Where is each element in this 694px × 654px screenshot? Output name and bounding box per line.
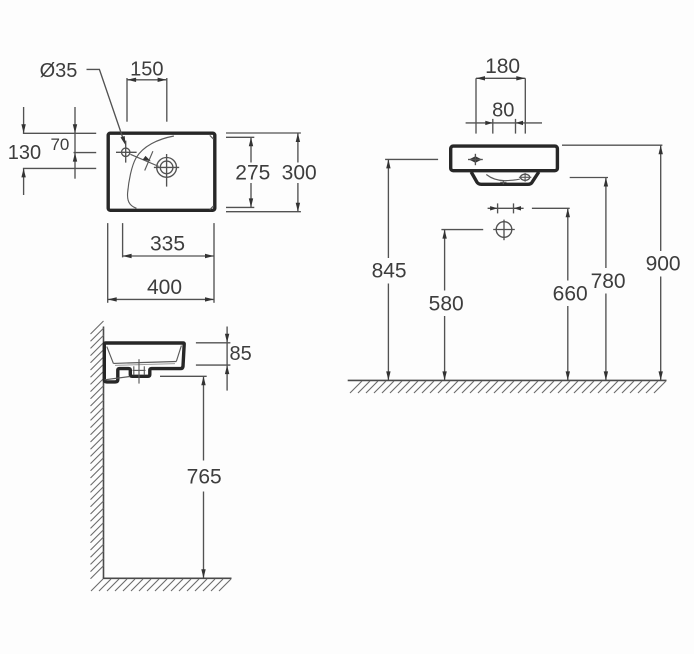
faucet hole circle (plan) <box>116 141 137 163</box>
FRONT VIEW GROUP <box>348 55 681 393</box>
dimension 80 <box>466 100 542 134</box>
extension line 580 <box>441 229 483 231</box>
underside diagonal line (side) <box>105 377 130 380</box>
overflow hole (front) <box>519 173 531 182</box>
basin inner wall left (side) <box>107 347 114 364</box>
floor line (side view) <box>103 577 232 579</box>
basin inner bottom (side) <box>113 362 176 366</box>
svg-text:780: 780 <box>591 270 626 293</box>
dimension 900 vertical <box>646 145 681 380</box>
svg-text:300: 300 <box>282 162 317 185</box>
dimension 180 <box>476 55 525 133</box>
right extension lines (275/300) <box>226 133 301 212</box>
dimension 275 vertical <box>235 137 270 207</box>
basin bowl (front view underside) <box>471 172 539 184</box>
extension line 845 <box>385 158 438 160</box>
inner water line curve (front) <box>486 175 520 181</box>
leader line from label to faucet hole <box>87 69 126 145</box>
svg-text:130: 130 <box>8 142 41 164</box>
dimension 580 vertical <box>429 230 464 381</box>
left extension lines (130/70) <box>23 133 96 168</box>
dimension 130 vertical <box>8 107 41 195</box>
dimension 400 <box>108 276 214 302</box>
extension line 900 <box>562 144 662 146</box>
dimension 150 (faucet to drain) <box>127 58 167 121</box>
svg-text:580: 580 <box>429 292 464 315</box>
svg-text:275: 275 <box>235 162 270 185</box>
basin profile outline (side view) <box>104 343 184 382</box>
svg-text:400: 400 <box>147 276 182 299</box>
outlet crosshair (front) <box>493 220 515 241</box>
inner corner chamfer top-right <box>210 135 214 139</box>
dimension 780 vertical <box>591 178 626 381</box>
dimension 765 <box>160 376 222 578</box>
svg-text:80: 80 <box>492 100 514 122</box>
svg-text:335: 335 <box>150 232 185 255</box>
inner basin curve <box>128 136 174 208</box>
svg-text:Ø35: Ø35 <box>40 60 78 82</box>
extension line 780 <box>570 177 608 179</box>
svg-text:900: 900 <box>646 253 681 276</box>
svg-text:150: 150 <box>130 58 163 80</box>
basin outline (plan view, 400x300 sink) <box>108 133 215 210</box>
basin body rectangle (front view) <box>451 146 558 171</box>
basin inner wall right (side) <box>176 346 181 362</box>
drain centerline (side) <box>133 359 146 383</box>
wall line <box>103 327 105 579</box>
bottom extension lines (335/400) <box>108 223 214 303</box>
svg-text:70: 70 <box>50 135 69 154</box>
dimension 70 vertical <box>50 107 77 179</box>
label diameter 35 <box>40 60 78 82</box>
SIDE VIEW GROUP <box>91 321 252 591</box>
svg-text:765: 765 <box>187 465 222 488</box>
drain crosshair (plan) <box>154 154 179 187</box>
dimension 335 <box>123 232 214 258</box>
supply fixing marks below basin <box>488 203 524 213</box>
floor hatching (side view) <box>91 579 231 591</box>
drain mark (front) <box>500 181 506 185</box>
connector line faucet to drain <box>130 151 158 170</box>
svg-text:845: 845 <box>372 260 407 283</box>
wall hatching <box>91 321 104 579</box>
dimension 85 <box>196 327 252 391</box>
svg-text:660: 660 <box>553 282 588 305</box>
dimension 660 vertical <box>553 208 588 380</box>
dimension 300 vertical <box>282 133 317 212</box>
faucet hole icon (front) <box>468 154 483 165</box>
extension line 660 <box>532 207 570 209</box>
floor hatching (front view) <box>350 381 666 393</box>
PLAN VIEW GROUP <box>8 58 317 302</box>
svg-text:85: 85 <box>229 343 251 365</box>
dimension 845 vertical <box>372 159 407 380</box>
drain pipe walls (side) <box>134 366 145 375</box>
inner corner chamfer bottom-right <box>210 206 214 210</box>
svg-text:180: 180 <box>485 55 520 78</box>
floor line (front view) <box>348 379 667 381</box>
